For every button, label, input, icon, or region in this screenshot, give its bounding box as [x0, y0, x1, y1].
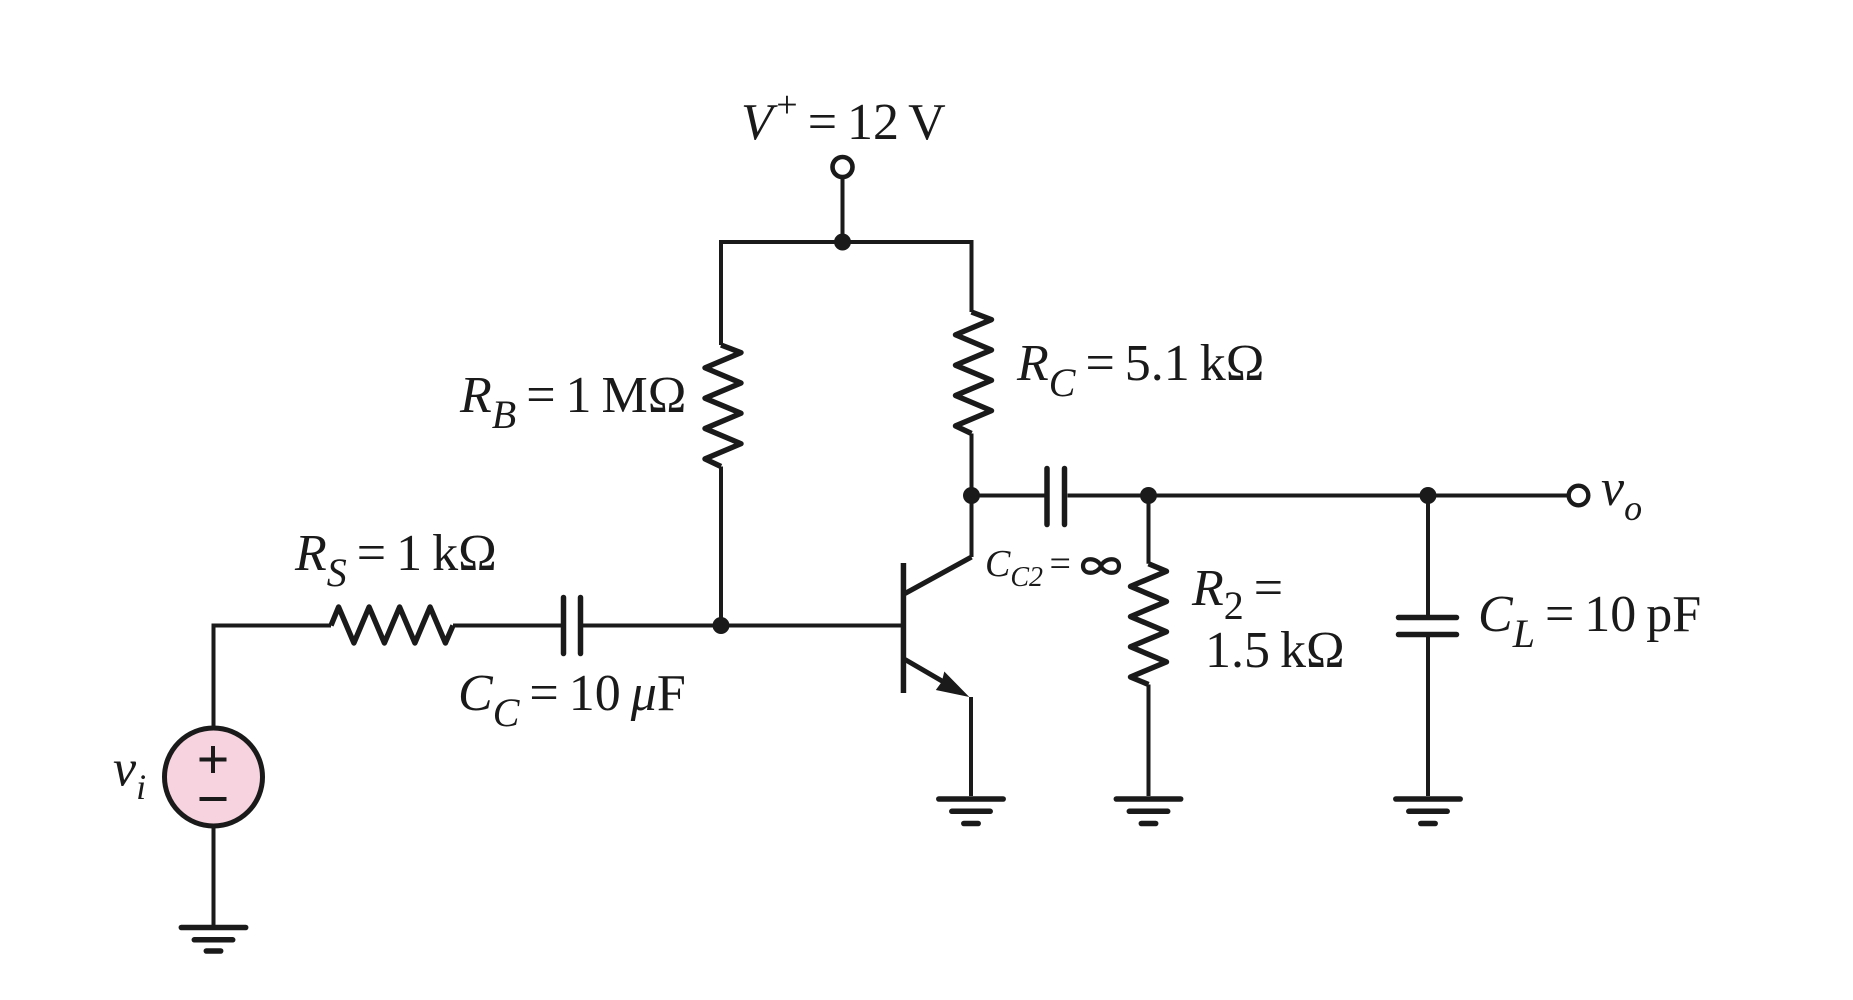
svg-text:1.5 kΩ: 1.5 kΩ: [1205, 622, 1345, 679]
svg-text:V+ = 12 V: V+ = 12 V: [741, 84, 946, 151]
